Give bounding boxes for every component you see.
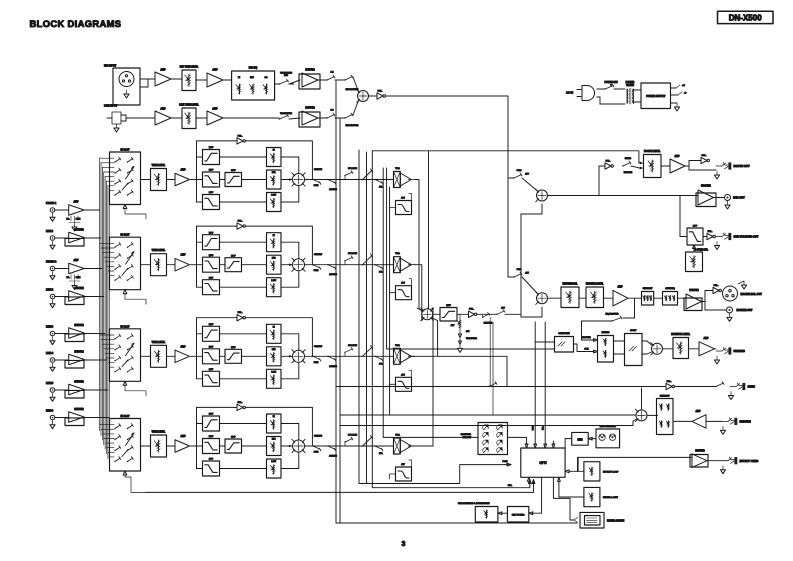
svg-text:MONITOR: MONITOR bbox=[461, 434, 472, 436]
summing node master bbox=[537, 293, 548, 304]
switch talkover bottom SW2 bbox=[279, 118, 280, 119]
summing node return bbox=[636, 410, 647, 421]
svg-text:PFL: PFL bbox=[508, 485, 513, 487]
ground LINE 5 bbox=[52, 393, 54, 397]
wire bbox=[242, 264, 267, 266]
cue line to booth level bbox=[372, 151, 640, 163]
selector contacts ch4 bbox=[114, 428, 115, 429]
pgm bus wire a bbox=[359, 150, 511, 484]
wire bbox=[196, 117, 207, 119]
selector input wires ch1 bbox=[100, 157, 114, 159]
LPF low shelf channel 3 bbox=[203, 371, 220, 386]
switch mic to master b bbox=[344, 117, 345, 118]
svg-text:TALKOVER: TALKOVER bbox=[466, 337, 477, 340]
svg-text:MID: MID bbox=[250, 77, 254, 79]
wire mic bus to master area bbox=[386, 96, 509, 277]
memory return box bbox=[647, 414, 658, 416]
trim pot channel 3 bbox=[151, 345, 167, 367]
svg-text:HPF: HPF bbox=[209, 147, 214, 149]
wire bbox=[141, 179, 151, 181]
trim pot channel 2 bbox=[151, 254, 167, 276]
svg-text:MID: MID bbox=[272, 257, 276, 259]
monitor split box bbox=[625, 334, 643, 366]
wire bbox=[335, 117, 345, 119]
wire bbox=[220, 333, 267, 335]
svg-text:LPF: LPF bbox=[209, 459, 214, 461]
switch booth mono bbox=[622, 165, 623, 166]
switch send tap bbox=[488, 386, 489, 387]
ground sub out bbox=[716, 242, 718, 246]
svg-text:FCL.: FCL. bbox=[238, 135, 243, 137]
wire to sum sw bbox=[353, 101, 359, 116]
line bus to sum bbox=[428, 151, 430, 309]
wire bbox=[433, 313, 440, 315]
svg-text:AMP: AMP bbox=[180, 345, 186, 348]
ground LINE 2 bbox=[52, 300, 54, 304]
selector feedback arrow ch4 bbox=[123, 471, 127, 475]
HPF mid filter channel 3 bbox=[225, 349, 242, 363]
svg-text:MID: MID bbox=[272, 439, 276, 441]
EQ MID pot channel 2 bbox=[267, 255, 282, 274]
svg-text:CF ASGN: CF ASGN bbox=[348, 252, 357, 255]
switch pgm to booth bbox=[508, 177, 514, 179]
monitor select rotary box bbox=[478, 423, 508, 455]
svg-text:LOW: LOW bbox=[271, 280, 276, 282]
summing node channel 3 bbox=[293, 350, 305, 362]
wire bbox=[171, 117, 182, 119]
line trim pot bbox=[182, 108, 196, 129]
selector input wires ch3 bbox=[100, 334, 114, 336]
switch mic to master a bbox=[344, 79, 345, 80]
trim pot channel 1 bbox=[151, 169, 167, 191]
cue tone box bbox=[555, 337, 574, 353]
EQ LOW pot channel 3 bbox=[267, 369, 282, 388]
monitor mixing box bbox=[598, 336, 614, 363]
wire bbox=[167, 179, 176, 181]
wire bbox=[55, 268, 69, 270]
EQ sum wires ch3 bbox=[281, 334, 299, 351]
wire to EQ split bbox=[191, 264, 197, 266]
svg-text:X-OVER LVL: X-OVER LVL bbox=[694, 249, 709, 252]
svg-text:KEY SPEED: KEY SPEED bbox=[512, 514, 525, 516]
svg-text:SPLIT: SPLIT bbox=[630, 330, 637, 332]
svg-text:LINE 1: LINE 1 bbox=[46, 231, 54, 233]
wire bbox=[628, 297, 642, 299]
crossfader feed wire ch1 bbox=[415, 180, 422, 312]
wire bbox=[579, 297, 586, 299]
inverter booth FCL bbox=[605, 163, 611, 169]
inverter FCL channel 4 bbox=[197, 406, 238, 408]
switch pgm to master sum bbox=[508, 276, 514, 278]
midi connector box bbox=[596, 429, 620, 448]
svg-text:LOW: LOW bbox=[271, 195, 276, 197]
wire booth split bbox=[685, 161, 701, 167]
svg-text:SELECT: SELECT bbox=[462, 437, 471, 439]
svg-text:MASTER: MASTER bbox=[701, 185, 711, 188]
cue bus wire bbox=[372, 151, 530, 488]
monitor bus wire a bbox=[383, 168, 478, 437]
wire bbox=[84, 389, 108, 391]
svg-text:HPF: HPF bbox=[231, 170, 236, 172]
wire bbox=[578, 470, 584, 472]
svg-text:HPF: HPF bbox=[231, 255, 236, 257]
svg-text:PHONES: PHONES bbox=[734, 349, 746, 353]
HPF hi shelf channel 4 bbox=[203, 416, 220, 431]
svg-text:BUFFER: BUFFER bbox=[305, 108, 315, 110]
ground talkover bbox=[459, 344, 461, 348]
svg-text:TRIM LEVEL: TRIM LEVEL bbox=[152, 250, 166, 252]
switch program to master bbox=[496, 314, 497, 315]
selector feedback arrow ch2 bbox=[123, 290, 127, 294]
booth out jack bbox=[716, 165, 722, 167]
post fader switches channel 2 bbox=[305, 264, 394, 266]
wire ac bbox=[597, 88, 605, 90]
return riser bbox=[641, 388, 643, 410]
svg-text:TRIM LEVEL: TRIM LEVEL bbox=[152, 342, 166, 344]
svg-text:CUE/SW: CUE/SW bbox=[314, 346, 322, 348]
wire to booth sum bbox=[522, 178, 538, 192]
LPF mid filter channel 3 bbox=[203, 349, 220, 364]
svg-text:CUE/TONE: CUE/TONE bbox=[558, 333, 570, 335]
EQ LOW pot channel 2 bbox=[267, 278, 282, 297]
svg-text:HPF: HPF bbox=[231, 437, 236, 439]
svg-text:LO: LO bbox=[265, 77, 268, 79]
wire bbox=[220, 241, 267, 243]
svg-text:AMP: AMP bbox=[212, 69, 218, 72]
svg-text:FCL.: FCL. bbox=[714, 285, 719, 287]
trim pot channel 4 bbox=[151, 435, 167, 457]
rec out jack bbox=[714, 197, 725, 199]
svg-text:LOW: LOW bbox=[271, 372, 276, 374]
switch talkover insert bbox=[482, 317, 483, 318]
wire bbox=[167, 355, 176, 357]
svg-text:PGM: PGM bbox=[314, 452, 319, 454]
wire mic to amp bbox=[140, 78, 155, 80]
booth tap riser bbox=[598, 166, 600, 196]
master feed riser bbox=[520, 214, 522, 317]
svg-text:LOW: LOW bbox=[271, 461, 276, 463]
key speed wire bbox=[532, 477, 542, 513]
HPF mid filter channel 4 bbox=[225, 439, 242, 453]
booth wire right bbox=[548, 195, 699, 197]
LPF mid filter channel 1 bbox=[203, 172, 220, 187]
master level pot bbox=[586, 287, 604, 308]
ground booth out bbox=[716, 171, 718, 175]
ground power supply bbox=[671, 102, 678, 104]
svg-text:TALKOVER: TALKOVER bbox=[280, 72, 292, 75]
ground master bal out bbox=[738, 281, 744, 284]
svg-text:FADER ASSIGN: FADER ASSIGN bbox=[607, 520, 624, 523]
svg-text:TRIM LEVEL: TRIM LEVEL bbox=[152, 432, 166, 434]
memory eq box bbox=[642, 292, 654, 306]
wire bbox=[661, 165, 670, 167]
wire bbox=[678, 297, 687, 299]
svg-text:EFFECT SEND: EFFECT SEND bbox=[740, 459, 759, 463]
ground LINE 3 bbox=[52, 337, 54, 341]
svg-text:FCL.: FCL. bbox=[238, 312, 243, 314]
HPF hi shelf channel 2 bbox=[203, 235, 220, 250]
selector input wires ch4 bbox=[100, 424, 114, 426]
svg-text:TRANS: TRANS bbox=[626, 84, 634, 87]
selector contacts ch3 bbox=[114, 338, 115, 339]
wire bbox=[631, 166, 640, 168]
send out jack bbox=[730, 386, 736, 388]
svg-text:EQ MASTER: EQ MASTER bbox=[605, 313, 618, 316]
svg-text:CUE: CUE bbox=[584, 349, 589, 351]
svg-text:TALKOVER: TALKOVER bbox=[280, 112, 292, 115]
EQ MID pot channel 1 bbox=[267, 170, 282, 189]
svg-text:HPF: HPF bbox=[209, 414, 214, 416]
wire rotary to cpu bbox=[508, 437, 527, 444]
LPF mid filter channel 4 bbox=[203, 439, 220, 454]
LPF low shelf channel 1 bbox=[203, 195, 220, 210]
EQ HI pot channel 1 bbox=[267, 148, 282, 167]
svg-text:IN SLCT: IN SLCT bbox=[121, 150, 131, 152]
svg-text:FCL.: FCL. bbox=[702, 155, 707, 157]
svg-text:AMP: AMP bbox=[73, 259, 79, 262]
svg-text:LINE 6: LINE 6 bbox=[46, 411, 54, 413]
svg-text:LPF: LPF bbox=[693, 226, 698, 228]
switch send bbox=[715, 386, 716, 387]
wire cue to mixing bbox=[574, 344, 595, 352]
wire bbox=[242, 355, 267, 357]
key speed box bbox=[507, 507, 528, 522]
wire bbox=[548, 297, 562, 299]
svg-text:PGM: PGM bbox=[533, 425, 535, 430]
EQ sum wires ch2 bbox=[281, 242, 299, 259]
ground phones bbox=[716, 356, 718, 360]
wire bbox=[592, 438, 596, 440]
svg-text:MASTER BAL: MASTER BAL bbox=[562, 283, 578, 286]
svg-text:AMP: AMP bbox=[160, 69, 166, 72]
wire bbox=[220, 445, 226, 447]
svg-text:LINE 2: LINE 2 bbox=[46, 290, 54, 292]
svg-text:PGM: PGM bbox=[314, 362, 319, 364]
summing node channel 1 bbox=[293, 174, 305, 186]
wire bbox=[141, 355, 151, 357]
svg-text:FCL.: FCL. bbox=[238, 402, 243, 404]
svg-text:MEMORY: MEMORY bbox=[643, 288, 653, 290]
svg-text:MID: MID bbox=[272, 349, 276, 351]
fader output wire channel 3 bbox=[409, 355, 415, 357]
ground effect send bbox=[722, 466, 724, 470]
inverter crossfader FCL bbox=[469, 311, 475, 317]
wire bbox=[289, 80, 300, 84]
input bus wires bbox=[99, 158, 101, 431]
wire bbox=[167, 264, 176, 266]
crossfader bus wire B bbox=[339, 119, 341, 523]
wire bbox=[220, 423, 267, 425]
wire bbox=[457, 313, 469, 315]
svg-text:TRIM LEVEL: TRIM LEVEL bbox=[152, 165, 166, 167]
svg-text:FCL.: FCL. bbox=[378, 90, 383, 92]
svg-text:LINE 5: LINE 5 bbox=[46, 383, 54, 385]
svg-text:MID: MID bbox=[272, 172, 276, 174]
cpu to fader assign wire bbox=[553, 477, 574, 520]
inverter send FCL bbox=[666, 383, 672, 389]
program bus pair down bbox=[489, 320, 491, 387]
svg-text:PGM: PGM bbox=[314, 270, 319, 272]
mic EQ block U5 bbox=[232, 71, 275, 100]
ground LINE 6 bbox=[52, 421, 54, 425]
svg-text:CUE/SW: CUE/SW bbox=[314, 169, 322, 171]
wire bbox=[242, 445, 267, 447]
wire bbox=[171, 78, 182, 80]
svg-text:LPF: LPF bbox=[209, 192, 214, 194]
svg-text:MASTER BAL OUT: MASTER BAL OUT bbox=[741, 293, 763, 296]
svg-text:3: 3 bbox=[402, 541, 406, 548]
svg-text:HPF: HPF bbox=[209, 232, 214, 234]
cpu box bbox=[521, 448, 565, 477]
svg-text:MASTER OUT: MASTER OUT bbox=[737, 309, 753, 312]
svg-text:AMP: AMP bbox=[180, 435, 186, 438]
eq master tap bbox=[634, 298, 636, 318]
svg-text:SW: SW bbox=[466, 331, 469, 333]
svg-text:FCL.: FCL. bbox=[708, 231, 713, 233]
fader output wire channel 4 bbox=[409, 445, 415, 447]
svg-text:LINE TRIM LEVEL: LINE TRIM LEVEL bbox=[179, 105, 199, 107]
svg-text:POWER SUPPLY: POWER SUPPLY bbox=[646, 95, 665, 98]
selector contacts ch1 bbox=[114, 161, 115, 162]
fader curve box bbox=[584, 487, 600, 506]
wire bbox=[84, 333, 105, 335]
switch cf assign 1b bbox=[326, 117, 327, 118]
svg-text:BUFFER: BUFFER bbox=[74, 288, 84, 290]
svg-text:POWER: POWER bbox=[626, 82, 635, 84]
return jack bbox=[706, 420, 722, 422]
svg-text:AMP: AMP bbox=[695, 410, 701, 413]
att eq box bbox=[663, 292, 678, 306]
booth feed elbow bbox=[521, 204, 542, 214]
svg-text:BUFFER: BUFFER bbox=[74, 325, 84, 327]
wire bbox=[55, 333, 69, 335]
inverter FCL channel 2 bbox=[197, 225, 238, 227]
wire bbox=[220, 468, 267, 470]
midi box bbox=[572, 432, 589, 445]
wire bbox=[55, 389, 69, 391]
HPF crossfader bbox=[440, 308, 457, 322]
svg-text:BOOTH OUT: BOOTH OUT bbox=[734, 164, 750, 168]
svg-text:AMP: AMP bbox=[703, 337, 709, 340]
HPF mid filter channel 2 bbox=[225, 258, 242, 272]
LPF mid filter channel 2 bbox=[203, 257, 220, 272]
phones jack bbox=[715, 348, 717, 350]
wire bbox=[84, 296, 104, 298]
svg-text:BUFFER: BUFFER bbox=[305, 70, 315, 72]
svg-text:BUFFER: BUFFER bbox=[689, 290, 699, 292]
svg-text:MASTER LEVEL: MASTER LEVEL bbox=[586, 283, 604, 286]
wire bbox=[335, 79, 345, 81]
wire bbox=[55, 359, 69, 361]
wire master split bbox=[702, 291, 714, 302]
ground return bbox=[722, 426, 724, 430]
power outputs bbox=[671, 87, 677, 89]
wire bbox=[565, 438, 572, 440]
svg-text:LINE: LINE bbox=[76, 219, 81, 221]
wire bbox=[220, 264, 226, 266]
svg-text:HPF: HPF bbox=[209, 324, 214, 326]
effect send jack bbox=[707, 460, 722, 462]
EQ sum wires ch4 bbox=[281, 424, 299, 441]
wire bbox=[703, 236, 707, 238]
wire bbox=[167, 445, 176, 447]
return bus wire low bbox=[340, 419, 636, 425]
LPF subwoofer bbox=[687, 228, 703, 245]
svg-text:FCL.: FCL. bbox=[238, 221, 243, 223]
svg-text:SUB WOOFER OUT: SUB WOOFER OUT bbox=[734, 235, 759, 239]
inverter FCL mic bbox=[369, 95, 378, 97]
EQ MID pot channel 4 bbox=[267, 437, 282, 456]
HPF hi shelf channel 1 bbox=[203, 150, 220, 165]
wire bbox=[275, 83, 279, 85]
buffer amp top U6 bbox=[299, 74, 320, 89]
wire bbox=[289, 118, 300, 119]
svg-text:FCL.: FCL. bbox=[606, 160, 611, 162]
wire bbox=[654, 297, 663, 299]
wire bbox=[55, 237, 69, 239]
svg-text:ATT/EUQ: ATT/EUQ bbox=[665, 287, 675, 290]
svg-text:MEMORY: MEMORY bbox=[660, 395, 670, 397]
svg-text:PHONO 2: PHONO 2 bbox=[46, 262, 57, 264]
ground LINE 1 bbox=[52, 241, 54, 245]
svg-text:MONITOR LEVEL: MONITOR LEVEL bbox=[671, 334, 690, 336]
return sum feed wire bbox=[340, 414, 636, 416]
pgm bus wire b bbox=[366, 152, 368, 484]
wire to EQ split bbox=[191, 355, 197, 357]
HPF hi shelf channel 3 bbox=[203, 326, 220, 341]
svg-text:FADER & CRV: FADER & CRV bbox=[603, 496, 618, 499]
svg-text:POWER SW: POWER SW bbox=[604, 82, 618, 84]
svg-text:AMP: AMP bbox=[212, 108, 218, 111]
fader output wire channel 2 bbox=[409, 264, 415, 266]
svg-text:DN-X500: DN-X500 bbox=[729, 14, 762, 23]
svg-text:LINE: LINE bbox=[76, 277, 81, 279]
svg-text:VCA: VCA bbox=[395, 252, 400, 255]
buffer amp bottom U7 bbox=[299, 112, 320, 127]
EQ HI pot channel 4 bbox=[267, 414, 282, 433]
svg-text:LPF: LPF bbox=[209, 277, 214, 279]
ground send bbox=[730, 392, 732, 396]
wire buffer2 out bbox=[318, 117, 327, 119]
svg-text:IN SLCT: IN SLCT bbox=[121, 235, 131, 237]
svg-text:AMP: AMP bbox=[617, 286, 623, 289]
wire bbox=[501, 512, 507, 514]
wire bbox=[141, 445, 151, 447]
summing node channel 4 bbox=[293, 440, 305, 452]
monitor bus wire b bbox=[387, 168, 555, 349]
svg-text:MIDI CONTROL: MIDI CONTROL bbox=[600, 426, 617, 428]
wire bbox=[84, 359, 106, 361]
svg-text:BUFFER: BUFFER bbox=[74, 409, 84, 411]
wire bbox=[196, 79, 207, 81]
selector feedback arrow ch3 bbox=[123, 381, 127, 385]
HPF mid filter channel 1 bbox=[225, 173, 242, 187]
talkover attenuator bbox=[459, 314, 461, 319]
wire bbox=[220, 355, 226, 357]
ch3 send tap wire bbox=[443, 356, 507, 386]
crossfader bus wire A bbox=[335, 81, 337, 523]
ch4 feedback bus wire bbox=[145, 480, 533, 493]
svg-text:BUFFER: BUFFER bbox=[74, 230, 84, 232]
svg-text:CF ASGN: CF ASGN bbox=[348, 344, 357, 347]
wire bbox=[477, 313, 497, 315]
LPF low shelf channel 4 bbox=[203, 461, 220, 476]
cpu status wires bbox=[534, 322, 536, 445]
crossfader feed wire ch4 bbox=[409, 308, 433, 446]
wire bbox=[223, 117, 279, 119]
selector contacts ch2 bbox=[114, 247, 115, 248]
svg-text:AMP: AMP bbox=[674, 155, 680, 158]
